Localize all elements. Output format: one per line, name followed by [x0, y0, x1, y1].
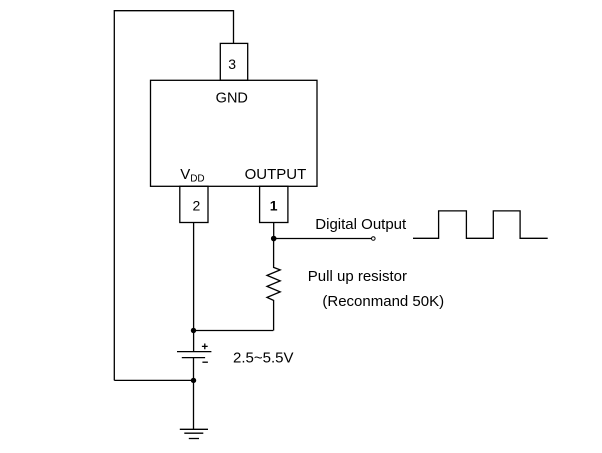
- svg-text:VDD: VDD: [180, 166, 204, 185]
- svg-text:1: 1: [270, 198, 278, 214]
- svg-text:GND: GND: [216, 90, 248, 106]
- svg-text:OUTPUT: OUTPUT: [245, 166, 307, 183]
- svg-text:3: 3: [228, 56, 236, 72]
- svg-text:Digital Output: Digital Output: [315, 216, 407, 233]
- svg-text:2.5~5.5V: 2.5~5.5V: [233, 350, 293, 367]
- svg-text:Pull up resistor: Pull up resistor: [308, 268, 407, 285]
- svg-text:2: 2: [193, 198, 201, 214]
- svg-text:(Reconmand 50K): (Reconmand 50K): [322, 293, 444, 310]
